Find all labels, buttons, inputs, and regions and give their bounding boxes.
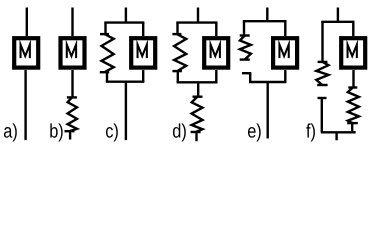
anchor bar below spring 1 (fig f) [318,97,327,99]
wire: bar-to-spring2 lead fig d [197,82,199,96]
wire: mass-to-bar stub fig c [142,70,144,82]
wire: bottom bar fig e [249,81,287,83]
wire: bar-to-mass stub fig e [284,21,286,36]
wire: top lead of fig b [71,8,73,37]
wire: bottom lead of fig a [24,70,26,140]
mass M (fig c) [131,38,155,67]
spring (fig c) [100,34,114,72]
wire: mass-to-spring2 lead fig f [352,70,354,88]
wire: top feed fig c [125,8,127,23]
wire: top feed fig d [197,8,199,23]
spring 2 (fig d) [191,97,203,132]
wire: mass-to-spring lead fig b [71,70,73,97]
wire: top lead of fig a [26,8,28,37]
wire: bar-to-mass stub fig c [142,23,144,36]
svg-text:e): e) [247,120,262,142]
wire: bottom bar fig d [177,81,218,83]
spring (fig b) [65,97,78,131]
mass M (fig a) [14,38,38,67]
wire: spring2-to-bar lead fig f [351,123,353,132]
mass M (fig d) [204,38,228,67]
wire: bottom tail fig c [125,82,127,140]
wire: bar-to-spring lead fig c [104,23,106,34]
wire: top bar fig d [176,21,217,23]
wire: mass-to-bar stub fig d [215,70,217,82]
wire: bottom bar fig c [106,80,145,82]
svg-text:f): f) [306,120,316,142]
wire: bar-to-spring lead fig d [176,23,178,34]
wire: free end stub fig b [69,131,71,139]
wire: bar-to-mass stub fig d [215,23,217,36]
wire: bar-to-spring lead fig f [321,22,323,62]
spring 2 (fig f) [347,88,359,124]
svg-text:d): d) [172,120,187,142]
wire: top feed fig f [337,8,339,22]
spring (fig e), free hanging [240,36,251,60]
svg-text:b): b) [49,120,64,142]
spring 1 (fig f), free hanging [316,62,328,85]
wire: spring-to-bar lead fig c [106,72,108,82]
wire: bar-to-mass stub fig f [352,22,354,36]
svg-text:c): c) [105,120,119,142]
wire: free end stub fig d [195,132,197,141]
wire: anchor-to-bottom-bar stub fig e [249,73,251,82]
wire: mass-to-bar stub fig e [284,70,286,82]
wire: anchor-to-bottom-bar line fig f [321,98,323,132]
mass M (fig f) [341,38,365,67]
wire: top bar fig c [104,21,144,23]
wire: top bar fig f [321,21,354,23]
wire: bottom bar fig f [321,131,356,133]
spring 1 (fig d) [172,34,186,71]
wire: bottom tail fig e [267,82,269,139]
wire: spring-to-bar lead fig d [177,71,179,82]
wire: top bar fig e [243,20,287,22]
wire: bar-to-spring lead fig e [243,21,245,35]
wire: top feed fig e [266,8,268,22]
wire: bottom tail stub fig f [335,132,337,140]
mass M (fig e) [273,38,297,67]
anchor bar below spring (fig e) [242,72,251,74]
svg-text:a): a) [3,120,18,142]
mass M (fig b) [61,38,85,67]
